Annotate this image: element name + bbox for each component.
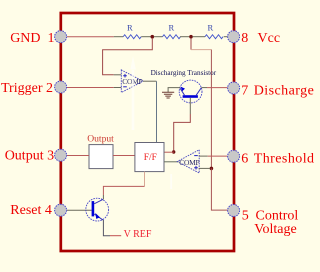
svg-text:Trigger 2: Trigger 2: [1, 81, 53, 96]
svg-text:Voltage: Voltage: [254, 222, 297, 237]
wire R2 lead left: [154, 36, 163, 38]
wire U2 output down to F/F: [156, 81, 158, 142]
transistor Q2 V REF circle: [86, 198, 109, 221]
pin 1 pad: [55, 31, 67, 43]
U2 minus sign: [123, 86, 127, 88]
wire F/F bottom to Q2 collector: [144, 172, 146, 187]
wire R1 lead right: [141, 36, 151, 38]
wire Q1 base to F/F (down, left, down): [174, 114, 191, 152]
Q2 base bar: [92, 201, 95, 216]
wire R3 lead right to pin8: [224, 36, 228, 38]
wire stub U2 minus input: [114, 87, 122, 89]
pin 3 pad: [55, 149, 67, 161]
wire pin4 reset to Q2 base: [67, 209, 92, 211]
svg-text:GND: GND: [10, 31, 40, 46]
node junction dot D (base net corner): [172, 150, 175, 153]
cursor artifact faint streak: [170, 174, 172, 189]
wire node A loop down-left to comparator U2 plus input: [103, 38, 153, 75]
Q2 emitter diagonal: [94, 214, 103, 220]
pin 2 pad: [55, 81, 67, 93]
Q1 collector diagonal: [196, 88, 201, 95]
svg-text:Vcc: Vcc: [258, 31, 281, 46]
op-amp U2 trigger comparator COMP: [121, 70, 143, 93]
Q1 emitter arrowhead: [181, 87, 185, 92]
wire U2 output stub: [143, 80, 156, 82]
Q1 emitter diagonal: [180, 88, 185, 95]
svg-text:Output: Output: [87, 134, 114, 145]
U3 plus sign: [194, 166, 198, 170]
svg-text:1: 1: [48, 31, 55, 46]
node junction dot C (control / comp2 plus): [210, 167, 214, 171]
svg-text:Discharging Transistor: Discharging Transistor: [151, 69, 217, 77]
svg-text:COMP: COMP: [179, 158, 199, 167]
wire Q1 collector to pin7 discharge: [201, 87, 207, 89]
svg-text:F/F: F/F: [144, 153, 157, 163]
cursor artifact white arrow: [130, 56, 135, 130]
wire control rail to pin5: [211, 168, 227, 210]
pin 4 pad: [55, 204, 67, 216]
wire stub U2 plus input: [114, 74, 122, 76]
svg-text:5: 5: [242, 208, 249, 223]
Q2 emitter arrowhead: [95, 213, 100, 219]
svg-text:8: 8: [241, 31, 248, 46]
svg-text:R: R: [208, 23, 214, 33]
wire F/F output to node D: [164, 151, 174, 153]
wire to V REF label: [110, 235, 121, 237]
wire pin3 to Output box: [67, 155, 89, 157]
resistor R3: [205, 35, 223, 39]
svg-text:7: 7: [241, 83, 248, 98]
wire R1 lead left: [114, 36, 124, 38]
svg-text:Threshold: Threshold: [254, 152, 315, 167]
wire control rail vertical to node C: [210, 50, 212, 169]
Q1 base lead stub down: [189, 98, 191, 114]
wire R2 lead right: [180, 36, 189, 38]
svg-text:R: R: [169, 23, 175, 33]
node junction dot B (2/3 Vcc tap): [189, 35, 193, 39]
svg-text:Reset 4: Reset 4: [10, 203, 52, 218]
block F/F flip-flop box: [135, 143, 164, 172]
svg-text:Output 3: Output 3: [5, 149, 54, 164]
wire stub U3 plus input to node C: [199, 167, 210, 169]
resistor R1: [123, 35, 141, 39]
wire Q2 emitter down: [103, 220, 110, 236]
wire node B down: [190, 38, 192, 50]
U2 plus sign: [123, 74, 127, 78]
Q2 collector diagonal: [94, 199, 103, 203]
transistor Q1 discharging transistor circle: [179, 80, 202, 103]
wire U3 minus to pin6 threshold: [208, 155, 228, 157]
pin 7 pad: [228, 82, 240, 94]
wire node B to control rail (tan): [191, 49, 211, 51]
wire to pin7: [207, 87, 228, 89]
wire stub Q2 collector: [102, 195, 104, 199]
Q1 base bar: [183, 95, 198, 98]
ground symbol: [162, 92, 174, 98]
wire R3 lead left: [193, 36, 206, 38]
node junction dot A (1/3 Vcc tap): [151, 35, 155, 39]
wire stub U3 minus input: [199, 155, 208, 157]
wire horizontal to VREF transistor: [103, 186, 144, 195]
svg-text:R: R: [127, 23, 133, 33]
pin 8 pad: [228, 31, 240, 43]
wire F/F to comparator U3 output: [164, 161, 179, 163]
resistor R2: [163, 35, 181, 39]
svg-text:V REF: V REF: [124, 229, 152, 240]
svg-text:6: 6: [241, 152, 248, 167]
IC body outline U1 (555 package): [61, 13, 234, 251]
wire Output box to F/F box: [113, 155, 135, 157]
wire pin1 to R1: [67, 36, 114, 38]
block Output stage box: [89, 145, 113, 169]
wire Q1 emitter to ground: [168, 88, 180, 93]
wire pin2 trigger to U2 minus input: [67, 87, 114, 89]
op-amp U3 threshold comparator COMP (points left): [177, 150, 199, 173]
pin 6 pad: [228, 150, 240, 162]
pin 5 pad: [228, 205, 240, 217]
svg-text:Discharge: Discharge: [254, 83, 315, 98]
U3 minus sign: [194, 155, 198, 157]
